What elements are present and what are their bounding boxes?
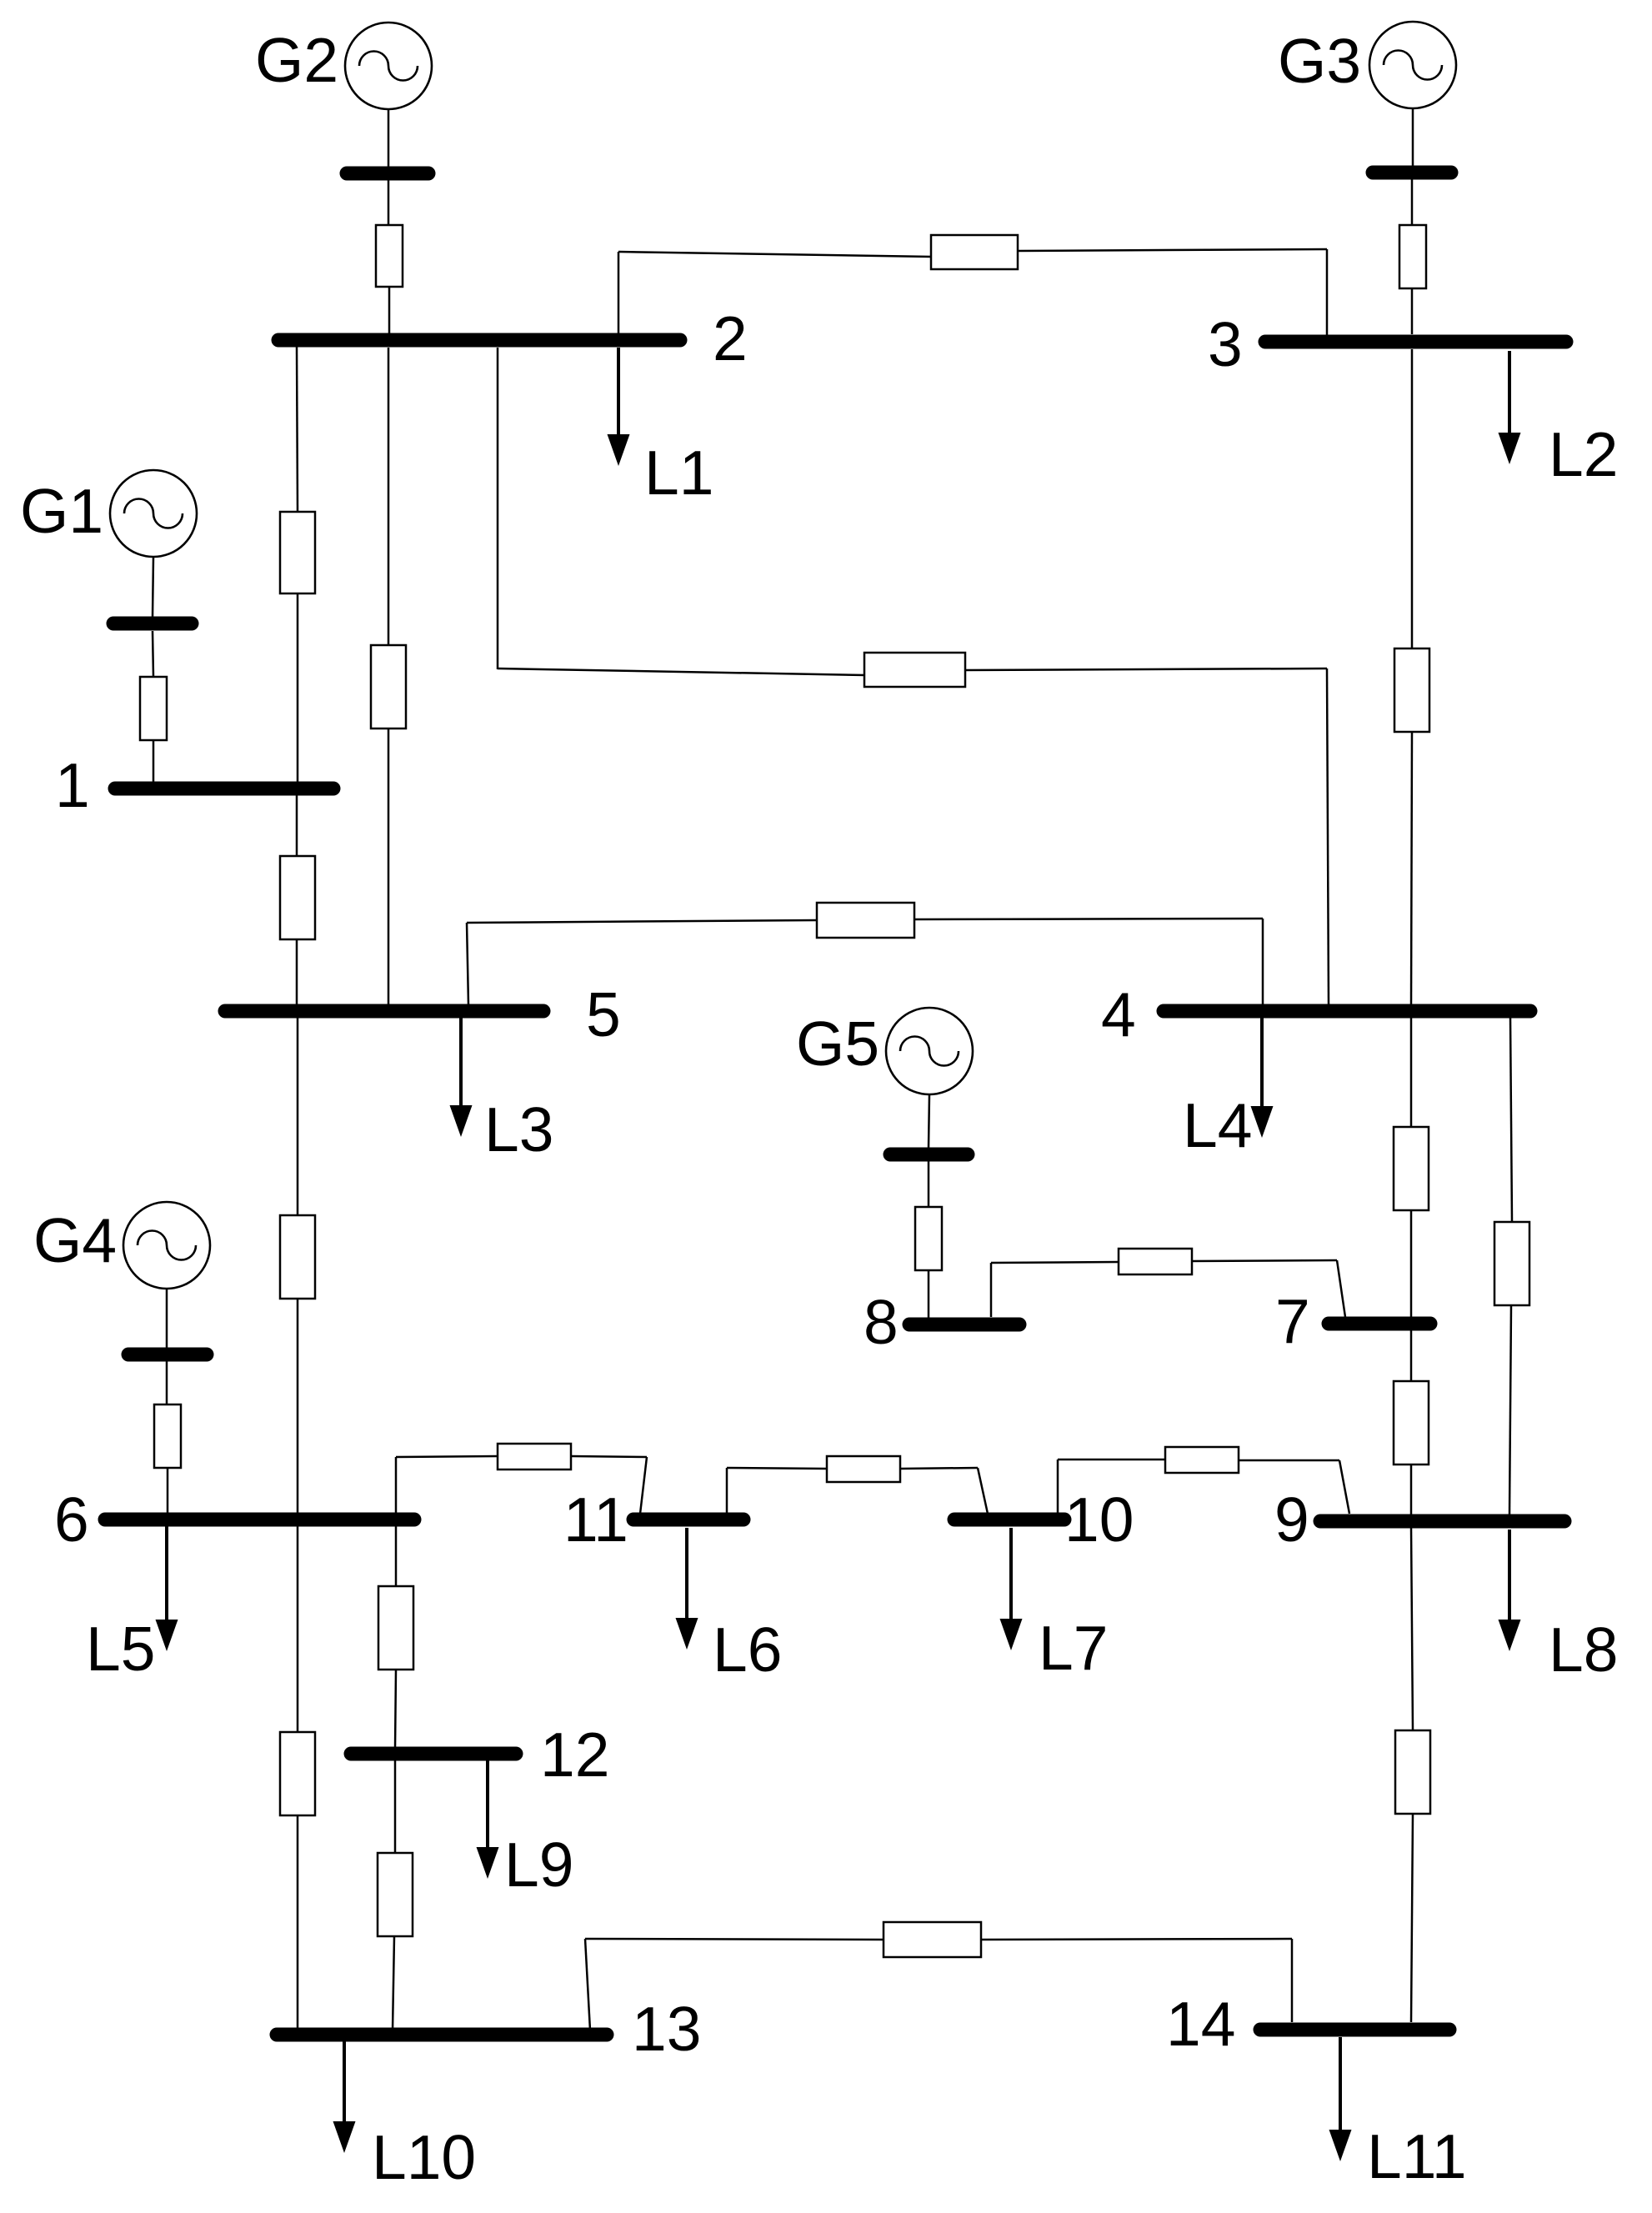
G4 transformer rect <box>154 1404 181 1468</box>
bus 4 <box>1164 1004 1530 1019</box>
svg-text:G4: G4 <box>33 1205 117 1275</box>
branch 7-9 rect <box>1394 1381 1429 1464</box>
svg-text:10: 10 <box>1064 1485 1134 1555</box>
generator G2 <box>345 23 432 109</box>
branch 7-8 rect <box>1119 1249 1192 1274</box>
branch 4-5 wire riser at bus 5 <box>467 923 468 1005</box>
branch 13-14 wire drop at bus 14 <box>1291 1939 1294 2022</box>
load L3 arrow <box>450 1018 473 1137</box>
branch 6-11 wire diagonal at bus 11 <box>640 1457 647 1514</box>
load L8 arrow <box>1499 1530 1521 1651</box>
svg-text:6: 6 <box>54 1485 89 1555</box>
branch 9-10 wire diagonal at bus 9 <box>1339 1460 1349 1514</box>
branch 6-11 rect <box>498 1444 571 1469</box>
bus 7 <box>1329 1317 1430 1331</box>
branch 10-11 wire diagonal at bus 10 <box>978 1468 988 1514</box>
bus 13 <box>277 2028 607 2042</box>
branch 7-8 wire horizontal right <box>1192 1260 1337 1261</box>
branch 6-13 wire lower <box>297 1815 299 2030</box>
G2 terminal bar <box>347 167 428 181</box>
branch 4-5 wire horizontal right <box>914 919 1263 919</box>
svg-text:8: 8 <box>864 1287 899 1357</box>
branch 6-13 wire upper <box>297 1525 299 1732</box>
svg-text:L3: L3 <box>484 1094 553 1164</box>
branch 13-14 wire riser at bus 13 <box>585 1939 590 2030</box>
svg-text:L8: L8 <box>1549 1615 1618 1685</box>
branch 13-14 rect <box>884 1922 981 1957</box>
svg-text:11: 11 <box>563 1485 628 1555</box>
branch 9-14 wire upper <box>1411 1527 1413 1730</box>
branch 13-14 wire horizontal right <box>981 1939 1292 1940</box>
wire G1 lead lower <box>153 740 155 784</box>
branch 4-5 wire drop at bus 4 <box>1262 919 1264 1005</box>
branch 2-5 wire lower <box>388 728 390 1005</box>
branch 2-3 wire drop at bus 3 <box>1326 249 1329 335</box>
branch 9-14 wire lower <box>1411 1814 1413 2022</box>
branch 6-11 wire horizontal right <box>571 1456 647 1457</box>
branch 2-5 rect <box>371 645 406 728</box>
branch 9-10 wire drop at bus 10 <box>1057 1459 1059 1514</box>
branch 10-11 wire horizontal right <box>900 1468 978 1469</box>
bus 2 <box>278 333 680 348</box>
load L9 arrow <box>477 1760 499 1879</box>
branch 7-9 wire upper <box>1410 1329 1413 1381</box>
branch 2-4 wire horizontal left <box>498 668 865 675</box>
branch 1-5 wire lower <box>296 939 298 1005</box>
branch 7-8 wire diagonal at bus 7 <box>1337 1260 1345 1317</box>
branch 7-8 wire horizontal left <box>991 1262 1119 1263</box>
svg-text:L4: L4 <box>1183 1090 1252 1160</box>
branch 2-5 wire upper <box>388 348 390 645</box>
branch 1-5 wire upper <box>296 795 298 856</box>
svg-text:L7: L7 <box>1039 1613 1108 1683</box>
branch 1-5 rect <box>280 856 315 939</box>
svg-text:G1: G1 <box>20 476 103 546</box>
svg-text:L11: L11 <box>1367 2121 1467 2191</box>
svg-text:G3: G3 <box>1278 26 1361 96</box>
wire G2 lead mid <box>388 180 390 225</box>
svg-text:5: 5 <box>586 979 621 1049</box>
branch 9-14 rect <box>1395 1730 1430 1814</box>
wire G4 lead lower <box>167 1468 169 1514</box>
branch 12-13 wire upper <box>394 1759 397 1853</box>
generator G5 <box>886 1008 973 1094</box>
wire G5 lead mid <box>928 1161 930 1207</box>
branch 1-2 wire lower <box>297 593 299 784</box>
bus 12 <box>351 1747 516 1761</box>
branch 6-11 wire riser at bus 6 <box>395 1457 398 1514</box>
wire G2 lead lower <box>388 287 391 335</box>
generator G3 <box>1369 22 1456 108</box>
branch 6-12 wire upper <box>395 1525 398 1586</box>
bus 5 <box>225 1004 543 1019</box>
svg-text:9: 9 <box>1274 1485 1309 1555</box>
branch 5-6 wire upper <box>297 1017 299 1215</box>
wire G4 lead mid <box>166 1361 168 1404</box>
wire G5 lead upper <box>929 1094 929 1148</box>
svg-text:G2: G2 <box>255 25 338 95</box>
load L2 arrow <box>1499 351 1521 464</box>
load L4 arrow <box>1251 1018 1274 1138</box>
branch 2-3 rect <box>931 235 1018 269</box>
svg-text:14: 14 <box>1166 1989 1235 2059</box>
branch 1-2 rect <box>280 512 315 593</box>
bus 6 <box>105 1513 414 1527</box>
branch 2-3 wire horizontal left <box>618 252 932 257</box>
branch 6-13 rect <box>280 1732 315 1815</box>
branch 4-7 rect <box>1394 1127 1429 1210</box>
load L6 arrow <box>676 1528 698 1650</box>
branch 3-4 wire upper <box>1411 349 1414 648</box>
svg-text:13: 13 <box>632 1994 701 2064</box>
branch 10-11 rect <box>827 1456 900 1482</box>
branch 9-10 wire horizontal right <box>1239 1459 1339 1462</box>
svg-text:L2: L2 <box>1549 419 1618 489</box>
bus 3 <box>1265 335 1566 349</box>
svg-text:L10: L10 <box>372 2122 476 2192</box>
branch 13-14 wire horizontal left <box>585 1939 884 1940</box>
svg-text:3: 3 <box>1208 309 1243 379</box>
svg-text:2: 2 <box>713 303 748 373</box>
G3 terminal bar <box>1373 166 1451 180</box>
branch 4-9 wire lower <box>1509 1305 1511 1515</box>
branch 6-12 rect <box>378 1586 413 1670</box>
branch 4-7 wire upper <box>1410 1017 1413 1127</box>
G4 terminal bar <box>128 1348 207 1362</box>
bus 1 <box>115 782 333 796</box>
svg-text:G5: G5 <box>796 1009 879 1079</box>
wire G2 lead upper <box>388 109 390 167</box>
wire G3 lead mid <box>1411 179 1414 225</box>
load L10 arrow <box>333 2041 356 2153</box>
branch 5-6 wire lower <box>297 1299 299 1514</box>
bus 11 <box>633 1513 743 1527</box>
G5 transformer rect <box>915 1207 942 1270</box>
branch 12-13 rect <box>378 1853 413 1936</box>
branch 4-9 rect <box>1494 1222 1529 1305</box>
wire G3 lead lower <box>1411 288 1414 334</box>
wire G5 lead lower <box>928 1270 930 1318</box>
branch 7-9 wire lower <box>1410 1464 1413 1515</box>
G2 transformer rect <box>376 225 403 287</box>
svg-text:12: 12 <box>540 1720 609 1790</box>
branch 9-10 rect <box>1165 1447 1239 1473</box>
svg-text:L9: L9 <box>504 1830 573 1900</box>
bus 8 <box>909 1318 1019 1332</box>
G3 transformer rect <box>1399 225 1426 288</box>
branch 4-9 wire upper <box>1510 1017 1512 1222</box>
bus 10 <box>954 1513 1064 1527</box>
G1 terminal bar <box>113 617 192 631</box>
branch 10-11 wire horizontal left <box>727 1468 827 1469</box>
load L1 arrow <box>608 348 630 466</box>
branch 4-5 rect <box>817 903 914 938</box>
wire G1 lead mid <box>153 631 153 677</box>
branch 3-4 wire lower <box>1411 732 1412 1005</box>
branch 5-6 rect <box>280 1215 315 1299</box>
wire G3 lead upper <box>1412 108 1414 166</box>
svg-text:7: 7 <box>1275 1286 1310 1356</box>
load L7 arrow <box>1000 1528 1023 1650</box>
bus 14 <box>1260 2023 1449 2037</box>
svg-text:1: 1 <box>55 750 90 820</box>
svg-text:L1: L1 <box>644 438 713 508</box>
branch 2-4 wire horizontal right <box>965 668 1327 670</box>
G5 terminal bar <box>890 1148 968 1162</box>
generator G1 <box>110 470 197 557</box>
branch 2-4 wire drop at bus 4 <box>1327 668 1329 1005</box>
branch 2-3 wire horizontal right <box>1018 249 1327 251</box>
branch 1-2 wire upper <box>297 347 298 512</box>
branch 6-12 wire lower <box>395 1670 396 1749</box>
branch 7-8 wire riser at bus 8 <box>990 1263 993 1317</box>
wire G1 lead upper <box>153 557 153 617</box>
branch 9-10 wire horizontal left <box>1058 1459 1165 1461</box>
svg-text:L6: L6 <box>713 1615 782 1685</box>
branch 3-4 rect <box>1394 648 1429 732</box>
load L11 arrow <box>1329 2037 1352 2161</box>
wire G4 lead upper <box>166 1289 168 1348</box>
bus 9 <box>1320 1515 1564 1529</box>
branch 2-4 wire riser at bus 2 <box>497 348 499 669</box>
G1 transformer rect <box>140 677 167 740</box>
branch 4-7 wire lower <box>1410 1210 1413 1317</box>
branch 2-4 rect <box>864 653 965 687</box>
branch 12-13 wire lower <box>393 1936 394 2030</box>
branch 2-3 wire riser at bus 2 <box>618 252 620 335</box>
branch 4-5 wire horizontal left <box>467 920 817 923</box>
svg-text:4: 4 <box>1101 979 1136 1049</box>
svg-text:L5: L5 <box>86 1614 155 1684</box>
branch 10-11 wire riser at bus 11 <box>726 1468 728 1514</box>
branch 6-11 wire horizontal left <box>396 1456 498 1457</box>
generator G4 <box>123 1202 210 1289</box>
load L5 arrow <box>156 1526 178 1651</box>
